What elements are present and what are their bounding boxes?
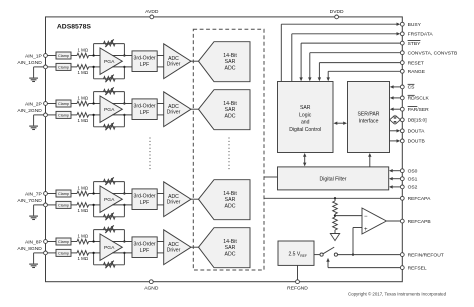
label 1 M&#937; CH2-P [77, 96, 88, 101]
wire clamp to R CH7-P [71, 193, 77, 195]
wire R to PGA CH8-P [89, 241, 100, 243]
label AIN_8GND [17, 246, 42, 252]
svg-text:STBY: STBY [408, 41, 422, 47]
wire OS2 [389, 185, 402, 188]
svg-text:Clamp: Clamp [58, 192, 69, 196]
label RESET [408, 60, 424, 66]
wire clamp to R CH7-G [71, 204, 77, 206]
pin REFIN/REFOUT [400, 253, 404, 257]
label AIN_1GND [17, 60, 42, 66]
block SER/PAR Interface [348, 82, 390, 153]
svg-text:REFSEL: REFSEL [408, 265, 427, 271]
label OS0 [408, 169, 418, 175]
wire driver to ADC CH7 [191, 198, 199, 200]
svg-text:Driver: Driver [167, 110, 181, 116]
svg-text:1 MΩ: 1 MΩ [77, 208, 88, 213]
svg-text:1 MΩ: 1 MΩ [77, 186, 88, 191]
svg-text:+: + [364, 227, 368, 233]
pin AIN_2P [44, 102, 48, 106]
device title ADS8578S [57, 24, 91, 31]
svg-text:OS0: OS0 [408, 169, 418, 175]
label REFIN/REFOUT [408, 252, 444, 258]
wire feedback right CH2 [123, 92, 125, 127]
svg-text:1 MΩ: 1 MΩ [77, 118, 88, 123]
svg-text:CS: CS [408, 85, 416, 91]
pin RESET [400, 61, 404, 65]
variable resistor feedback bottom CH7 [104, 213, 116, 221]
op-amp PGA CH2 [100, 96, 122, 122]
wire feedback top CH1 [94, 43, 125, 45]
svg-text:Driver: Driver [167, 200, 181, 206]
amplifier ADC Driver CH7 [164, 182, 191, 217]
wire divider to arrow [334, 230, 336, 234]
wire PGA out G CH7 [112, 204, 132, 206]
wire clamp to R CH8-P [71, 241, 77, 243]
svg-text:REFIN/REFOUT: REFIN/REFOUT [408, 252, 444, 258]
wire BUSY [281, 23, 400, 82]
svg-text:BUSY: BUSY [408, 22, 422, 28]
svg-text:3rd-Order: 3rd-Order [134, 194, 156, 200]
pin DVDD [330, 9, 344, 19]
resistor 1M CH1-P [77, 53, 89, 58]
wire PGA out G CH2 [112, 114, 132, 116]
label 1 M&#937; CH8-G [77, 256, 88, 261]
wire AIN_1GND to clamp [47, 66, 56, 68]
amplifier ADC Driver CH1 [164, 44, 191, 79]
copyright notice [348, 291, 447, 296]
wire PGA out P CH2 [112, 103, 132, 105]
svg-text:DVDD: DVDD [330, 9, 344, 15]
wire OS0 [389, 169, 402, 172]
wire vref to switch [314, 254, 320, 256]
pin PAR/SER [400, 107, 404, 111]
wire PGA out P CH7 [112, 193, 132, 195]
wire feedback bottom CH7 [94, 216, 125, 218]
resistor divider lower [333, 217, 338, 230]
wire LPF to driver P CH1 [157, 55, 164, 57]
svg-text:SER/PAR: SER/PAR [358, 111, 380, 117]
clamp CH7-G [56, 201, 71, 208]
ADC 14-Bit SAR CH1 [199, 42, 251, 82]
wire LPF to driver G CH8 [157, 252, 164, 254]
wire AIN_7GND to clamp [47, 204, 56, 206]
resistor 1M CH7-G [77, 203, 89, 208]
junction dots CH8 [92, 240, 125, 254]
label OS2 [408, 185, 418, 191]
wire driver to ADC CH1 [191, 60, 199, 62]
junction dots CH1 [92, 54, 125, 68]
pin DOUTA [400, 129, 404, 133]
bus DB[15:0] bidirectional arrow [390, 116, 401, 124]
wire AIN_8GND to clamp [47, 252, 56, 254]
wire PGA out G CH1 [112, 66, 132, 68]
resistor 1M CH7-P [77, 191, 89, 196]
label RANGE [408, 69, 426, 75]
clamp CH2-G [56, 111, 71, 118]
wire feedback left CH7 [93, 182, 95, 217]
pin REFCAPA [400, 196, 404, 200]
pin BUSY [400, 22, 404, 26]
wire AIN_7P to clamp [47, 193, 56, 195]
pin AIN_1GND [44, 65, 48, 69]
block Digital Filter [278, 167, 389, 190]
svg-text:3rd-Order: 3rd-Order [134, 56, 156, 62]
svg-text:LPF: LPF [140, 248, 149, 254]
pin CS [400, 85, 404, 89]
svg-text:AIN_8GND: AIN_8GND [17, 246, 42, 252]
variable resistor feedback top CH1 [104, 39, 116, 47]
svg-text:REFCAPA: REFCAPA [408, 196, 431, 202]
label AIN_2P [25, 101, 42, 107]
wire R to PGA CH1-G [89, 66, 100, 68]
label BUSY [408, 22, 422, 28]
pin AIN_1P [44, 54, 48, 58]
wire clamp to R CH8-G [71, 252, 77, 254]
svg-text:RESET: RESET [408, 60, 424, 66]
svg-text:LPF: LPF [140, 62, 149, 68]
pin AIN_7P [44, 192, 48, 196]
pin AIN_7GND [44, 203, 48, 207]
svg-text:ADC: ADC [225, 113, 236, 119]
label 1 M&#937; CH7-G [77, 208, 88, 213]
svg-text:Interface: Interface [359, 119, 379, 125]
pin OS1 [400, 177, 404, 181]
svg-text:OS2: OS2 [408, 185, 418, 191]
clamp CH7-P [56, 190, 71, 197]
wire AIN_8P to clamp [47, 241, 56, 243]
op-amp reference buffer [362, 208, 386, 234]
svg-text:PAR/SER: PAR/SER [408, 107, 430, 113]
amplifier ADC Driver CH8 [164, 230, 191, 265]
resistor divider upper [333, 198, 338, 214]
svg-text:−: − [364, 214, 368, 220]
variable resistor feedback top CH2 [104, 87, 116, 95]
svg-text:Clamp: Clamp [58, 240, 69, 244]
wire PGA out G CH8 [112, 252, 132, 254]
clamp CH8-P [56, 238, 71, 245]
wire clamp to R CH2-G [71, 114, 77, 116]
svg-text:DB[15:0]: DB[15:0] [408, 118, 428, 124]
wire tap to buffer inverting input [335, 215, 362, 217]
svg-text:Clamp: Clamp [58, 102, 69, 106]
svg-text:AVDD: AVDD [145, 9, 159, 15]
wire REFSEL control [326, 258, 402, 268]
junction dots CH2 [92, 102, 125, 116]
ground AIN_8GND [29, 253, 43, 268]
svg-text:AIN_8P: AIN_8P [25, 239, 42, 245]
pin AIN_8GND [44, 251, 48, 255]
label 1 M&#937; CH8-P [77, 234, 88, 239]
svg-text:1 MΩ: 1 MΩ [77, 234, 88, 239]
svg-text:RD/SCLK: RD/SCLK [408, 96, 430, 102]
svg-text:LPF: LPF [140, 200, 149, 206]
pin OS2 [400, 185, 404, 189]
svg-text:REFCAPB: REFCAPB [408, 219, 431, 225]
svg-text:DOUTB: DOUTB [408, 139, 425, 145]
label 1 M&#937; CH1-P [77, 48, 88, 53]
wire CONVSTA, CONVSTB [308, 53, 402, 81]
label DOUTA [408, 129, 425, 135]
wire CS [390, 85, 403, 88]
svg-text:ADC: ADC [225, 203, 236, 209]
label 1 M&#937; CH1-G [77, 70, 88, 75]
svg-text:Clamp: Clamp [58, 113, 69, 117]
label 1 M&#937; CH2-G [77, 118, 88, 123]
filter 3rd-Order LPF CH2 [132, 99, 157, 120]
label DB[15:0] [408, 118, 428, 124]
svg-text:AGND: AGND [144, 285, 159, 291]
svg-text:Digital Filter: Digital Filter [320, 177, 347, 183]
svg-text:14-Bit: 14-Bit [223, 239, 237, 245]
open arrow to reference mux [330, 234, 339, 241]
svg-text:Clamp: Clamp [58, 54, 69, 58]
label STBY [408, 41, 422, 47]
label AIN_7GND [17, 198, 42, 204]
wire DOUTA [390, 129, 401, 132]
svg-text:1 MΩ: 1 MΩ [77, 48, 88, 53]
svg-text:PGA: PGA [104, 59, 115, 65]
svg-text:OS1: OS1 [408, 177, 418, 183]
wire OS1 [389, 177, 402, 180]
variable resistor feedback top CH8 [104, 225, 116, 233]
svg-text:Clamp: Clamp [58, 65, 69, 69]
wire driver to ADC CH8 [191, 246, 199, 248]
pin RD/SCLK [400, 96, 404, 100]
svg-text:RANGE: RANGE [408, 69, 426, 75]
svg-text:Driver: Driver [167, 248, 181, 254]
wire R to PGA CH1-P [89, 55, 100, 57]
wire clamp to R CH2-P [71, 103, 77, 105]
svg-text:Clamp: Clamp [58, 251, 69, 255]
amplifier ADC Driver CH2 [164, 92, 191, 127]
svg-text:SAR: SAR [225, 59, 236, 65]
resistor 1M CH2-G [77, 113, 89, 118]
op-amp PGA CH7 [100, 186, 122, 212]
pin AIN_8P [44, 240, 48, 244]
ground AIN_7GND [29, 205, 43, 220]
IC boundary frame ADS8578S [46, 17, 403, 282]
svg-text:SAR: SAR [225, 245, 236, 251]
label AIN_1P [25, 53, 42, 59]
pin RANGE [400, 69, 404, 73]
svg-text:3rd-Order: 3rd-Order [134, 242, 156, 248]
pin AIN_2GND [44, 113, 48, 117]
wire feedback bottom CH1 [94, 78, 125, 80]
wire LPF to driver G CH7 [157, 204, 164, 206]
wire STBY [299, 43, 402, 81]
svg-text:DOUTA: DOUTA [408, 129, 425, 135]
wire clamp to R CH1-P [71, 55, 77, 57]
label REFSEL [408, 265, 427, 271]
wire feedback right CH1 [123, 44, 125, 79]
wire R to PGA CH2-G [89, 114, 100, 116]
wire switch to REFIN/REFOUT [338, 254, 403, 256]
wire R to PGA CH2-P [89, 103, 100, 105]
wire ADC group to Digital Filter [264, 176, 278, 178]
svg-text:REFGND: REFGND [287, 285, 308, 291]
wire feedback left CH8 [93, 230, 95, 265]
wire PGA out P CH1 [112, 55, 132, 57]
wire AIN_2GND to clamp [47, 114, 56, 116]
variable resistor feedback bottom CH2 [104, 123, 116, 131]
label FRSTDATA [408, 32, 434, 38]
block SAR Logic and Digital Control [278, 82, 334, 153]
variable resistor feedback bottom CH8 [104, 261, 116, 269]
label REFCAPB [408, 219, 431, 225]
wire buffer noninverting input [353, 228, 362, 255]
wire LPF to driver G CH2 [157, 114, 164, 116]
label CS [408, 84, 416, 90]
wire clamp to R CH1-G [71, 66, 77, 68]
wire R to PGA CH7-G [89, 204, 100, 206]
pin REFGND [287, 280, 308, 291]
svg-text:AIN_2P: AIN_2P [25, 101, 42, 107]
svg-text:Digital Control: Digital Control [289, 127, 321, 133]
wire AIN_2P to clamp [47, 103, 56, 105]
wire PAR/SER [390, 108, 403, 111]
wire LPF to driver P CH7 [157, 193, 164, 195]
svg-text:FRSTDATA: FRSTDATA [408, 32, 434, 38]
svg-text:14-Bit: 14-Bit [223, 191, 237, 197]
wire vref to REFGND [297, 265, 299, 281]
wire LPF to driver G CH1 [157, 66, 164, 68]
svg-text:and: and [301, 120, 310, 126]
wire LPF to driver P CH2 [157, 103, 164, 105]
svg-text:Copyright © 2017, Texas Instru: Copyright © 2017, Texas Instruments Inco… [348, 291, 447, 296]
label RD/SCLK [408, 95, 430, 101]
ground AIN_2GND [29, 115, 43, 130]
svg-text:ADC: ADC [225, 65, 236, 71]
svg-text:AIN_7P: AIN_7P [25, 191, 42, 197]
label AIN_7P [25, 191, 42, 197]
pin DOUTB [400, 139, 404, 143]
pin OS0 [400, 169, 404, 173]
wire AIN_1P to clamp [47, 55, 56, 57]
variable resistor feedback top CH7 [104, 177, 116, 185]
label CONVSTA, CONVSTB [408, 51, 458, 57]
arrow SAR to Digital Filter bidirectional [303, 153, 306, 166]
svg-text:SAR: SAR [300, 105, 311, 111]
ADC 14-Bit SAR CH7 [199, 180, 251, 220]
variable resistor feedback bottom CH1 [104, 75, 116, 83]
wire feedback bottom CH2 [94, 126, 125, 128]
wire DOUTB [390, 139, 401, 142]
dashed box ADC group [193, 29, 264, 270]
wire LPF to driver P CH8 [157, 241, 164, 243]
ground AIN_1GND [29, 67, 43, 82]
node REFIN junction [352, 253, 354, 255]
svg-text:1 MΩ: 1 MΩ [77, 96, 88, 101]
wire RESET [318, 63, 403, 82]
svg-text:SAR: SAR [225, 197, 236, 203]
node REFCAPA divider junction [334, 197, 336, 199]
wire feedback top CH2 [94, 91, 125, 93]
label AIN_2GND [17, 108, 42, 114]
filter 3rd-Order LPF CH7 [132, 189, 157, 210]
resistor 1M CH8-G [77, 251, 89, 256]
svg-text:SAR: SAR [225, 107, 236, 113]
arrow SAR to SER/PAR bidirectional [334, 122, 348, 125]
pin CONVSTA, CONVSTB [400, 51, 404, 55]
resistor 1M CH1-G [77, 65, 89, 70]
filter 3rd-Order LPF CH1 [132, 51, 157, 72]
wire PGA out P CH8 [112, 241, 132, 243]
wire feedback top CH8 [94, 229, 125, 231]
wire feedback bottom CH8 [94, 264, 125, 266]
ADC 14-Bit SAR CH8 [199, 228, 251, 268]
ellipsis dots analog chain [149, 138, 151, 172]
wire feedback right CH8 [123, 230, 125, 265]
node divider tap [334, 214, 336, 217]
wire R to PGA CH8-G [89, 252, 100, 254]
label REFCAPA [408, 196, 431, 202]
label DOUTB [408, 139, 425, 145]
svg-text:Clamp: Clamp [58, 203, 69, 207]
svg-text:1 MΩ: 1 MΩ [77, 70, 88, 75]
clamp CH2-P [56, 100, 71, 107]
pin FRSTDATA [400, 32, 404, 36]
svg-text:PGA: PGA [104, 107, 115, 113]
pin REFSEL [400, 266, 404, 270]
filter 3rd-Order LPF CH8 [132, 237, 157, 258]
wire feedback top CH7 [94, 181, 125, 183]
svg-text:ADS8578S: ADS8578S [57, 24, 91, 31]
svg-text:PGA: PGA [104, 197, 115, 203]
svg-text:AIN_7GND: AIN_7GND [17, 198, 42, 204]
clamp CH1-P [56, 52, 71, 59]
svg-text:1 MΩ: 1 MΩ [77, 256, 88, 261]
svg-text:AIN_1P: AIN_1P [25, 53, 42, 59]
pin AVDD [145, 9, 159, 19]
pin REFCAPB [400, 219, 404, 223]
arrow Digital Filter to SER/PAR [368, 153, 371, 167]
svg-text:PGA: PGA [104, 245, 115, 251]
block 2.5V reference [278, 241, 314, 265]
wire R to PGA CH7-P [89, 193, 100, 195]
svg-text:LPF: LPF [140, 110, 149, 116]
wire feedback left CH2 [93, 92, 95, 127]
label PAR/SER [408, 107, 430, 113]
clamp CH8-G [56, 249, 71, 256]
ADC 14-Bit SAR CH2 [199, 90, 251, 130]
svg-text:ADC: ADC [225, 251, 236, 257]
wire FRSTDATA [292, 32, 401, 81]
wire feedback left CH1 [93, 44, 95, 79]
svg-text:3rd-Order: 3rd-Order [134, 104, 156, 110]
pin AGND [144, 280, 159, 291]
pin DB[15:0] [400, 118, 404, 122]
svg-text:CONVSTA, CONVSTB: CONVSTA, CONVSTB [408, 51, 458, 57]
wire feedback right CH7 [123, 182, 125, 217]
svg-text:Driver: Driver [167, 62, 181, 68]
resistor 1M CH2-P [77, 101, 89, 106]
wire REFCAPA [264, 197, 402, 199]
junction dots CH7 [92, 192, 125, 206]
op-amp PGA CH1 [100, 48, 122, 74]
wire RD/SCLK [390, 96, 403, 99]
svg-text:Logic: Logic [299, 112, 312, 118]
op-amp PGA CH8 [100, 234, 122, 260]
svg-text:14-Bit: 14-Bit [223, 53, 237, 59]
ellipsis dots ADC chain [228, 138, 230, 172]
label OS1 [408, 177, 418, 183]
switch REFSEL [320, 247, 338, 256]
wire RANGE [327, 71, 403, 81]
clamp CH1-G [56, 63, 71, 70]
pin STBY [400, 41, 404, 45]
wire driver to ADC CH2 [191, 108, 199, 110]
label 1 M&#937; CH7-P [77, 186, 88, 191]
